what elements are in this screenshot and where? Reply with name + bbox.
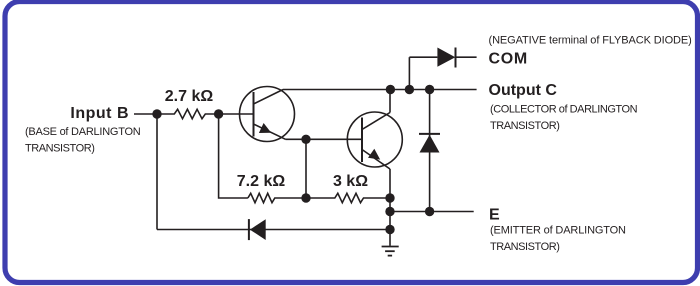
- node dot COM riser on output rail: [405, 85, 414, 94]
- svg-text:TRANSISTOR): TRANSISTOR): [490, 120, 559, 132]
- node dot Q2 collector on output rail: [386, 85, 395, 94]
- node dot D2 top on output rail: [425, 85, 434, 94]
- wire E rail: [390, 211, 474, 213]
- diode D1 flyback: [437, 48, 476, 68]
- node dot bottom rail junction: [385, 225, 394, 234]
- svg-text:(NEGATIVE terminal of FLYBACK: (NEGATIVE terminal of FLYBACK DIODE): [489, 35, 692, 47]
- resistor R1: [157, 109, 219, 118]
- resistor R3 3k: [306, 193, 390, 202]
- svg-text:COM: COM: [489, 51, 528, 68]
- diode D2: [419, 90, 440, 212]
- transistor Q1: [240, 87, 295, 142]
- svg-text:TRANSISTOR): TRANSISTOR): [25, 143, 94, 155]
- wire bottom rail: [157, 229, 390, 231]
- wire vertical from R1 node to 7.2k row: [219, 114, 248, 198]
- node dot E rail junction: [385, 207, 394, 216]
- svg-text:(BASE of DARLINGTON: (BASE of DARLINGTON: [25, 126, 141, 138]
- wire COM riser: [408, 57, 410, 89]
- node dot Q1 emitter junction: [301, 135, 310, 144]
- svg-text:(COLLECTOR of DARLINGTON: (COLLECTOR of DARLINGTON: [490, 104, 638, 116]
- svg-text:E: E: [489, 207, 500, 224]
- wire base of Q1: [219, 113, 254, 115]
- wire vertical from input node to bottom rail: [156, 114, 158, 230]
- diode D3: [249, 219, 266, 240]
- node dot resistor junction: [301, 193, 310, 202]
- svg-text:(EMITTER of DARLINGTON: (EMITTER of DARLINGTON: [490, 225, 626, 237]
- node dot D2 bottom on E rail: [425, 207, 434, 216]
- node dot R1-right junction: [214, 109, 223, 118]
- svg-text:3 kΩ: 3 kΩ: [333, 173, 368, 190]
- svg-text:2.7 kΩ: 2.7 kΩ: [165, 88, 214, 105]
- ground: [382, 247, 399, 256]
- transistor Q2: [347, 112, 402, 169]
- svg-text:7.2 kΩ: 7.2 kΩ: [237, 173, 286, 190]
- svg-text:Input B: Input B: [70, 105, 129, 122]
- wire input lead: [134, 113, 157, 115]
- svg-text:Output C: Output C: [489, 82, 558, 99]
- svg-text:TRANSISTOR): TRANSISTOR): [490, 241, 559, 253]
- resistor R2 7.2k: [248, 193, 306, 202]
- wire Q2 collector riser: [389, 90, 391, 113]
- node dot input junction: [152, 109, 161, 118]
- wire Q1 emitter to Q2 base: [286, 138, 363, 140]
- wire COM lead left: [409, 56, 437, 58]
- wire vertical Q1 emitter node to resistor row: [305, 139, 307, 198]
- wire emitter column: [389, 198, 391, 246]
- wire Q2 emitter drop: [389, 169, 391, 198]
- node dot R3 right junction: [385, 193, 394, 202]
- wire output rail: [283, 89, 477, 91]
